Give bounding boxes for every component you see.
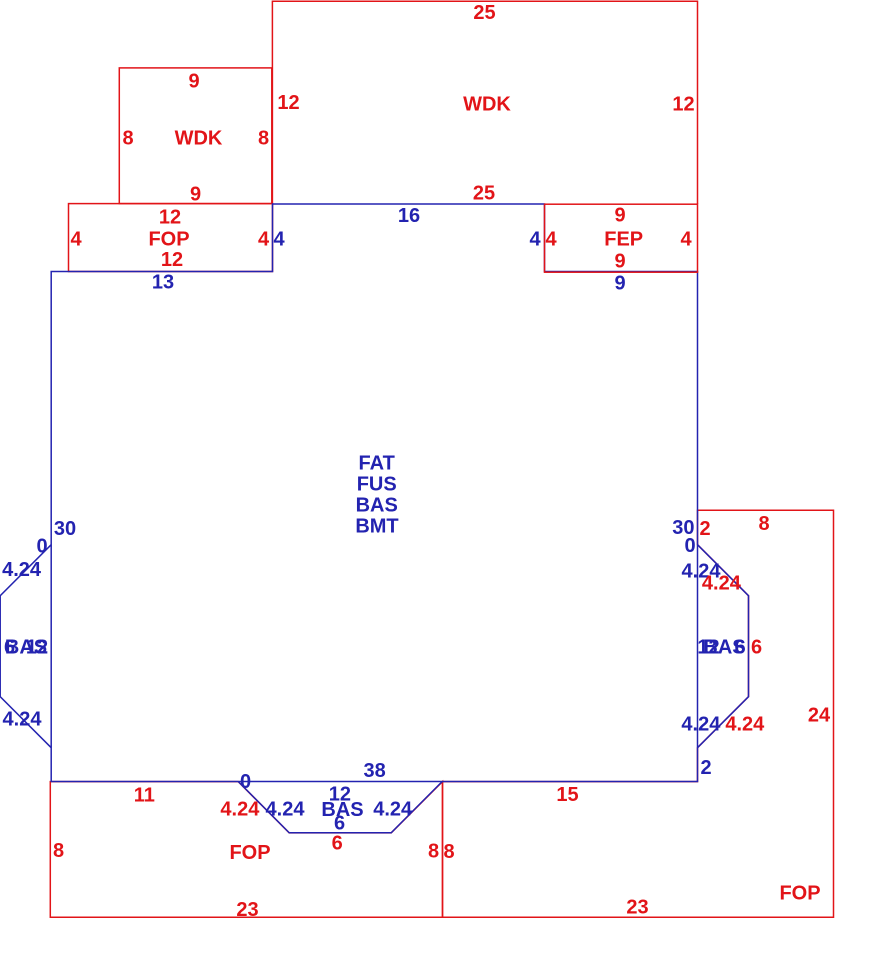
svg-text:6: 6: [734, 637, 745, 659]
svg-text:8: 8: [443, 841, 454, 863]
svg-text:2: 2: [700, 757, 711, 779]
svg-text:9: 9: [614, 251, 625, 273]
area FOP (upper-left open porch) outline: [69, 204, 273, 272]
svg-text:12: 12: [672, 94, 694, 116]
svg-text:12: 12: [26, 637, 48, 659]
svg-text:23: 23: [236, 899, 258, 921]
svg-text:FOP: FOP: [779, 883, 820, 905]
svg-text:4.24: 4.24: [681, 713, 721, 735]
svg-text:4.24: 4.24: [2, 559, 42, 581]
svg-text:FOP: FOP: [229, 842, 270, 864]
svg-text:6: 6: [751, 637, 762, 659]
svg-text:8: 8: [428, 841, 439, 863]
area WDK (small wood deck) outline: [119, 68, 271, 204]
svg-text:8: 8: [758, 513, 769, 535]
svg-text:8: 8: [258, 128, 269, 150]
svg-text:9: 9: [190, 184, 201, 206]
svg-text:6: 6: [332, 833, 343, 855]
svg-text:4: 4: [258, 229, 270, 251]
svg-text:0: 0: [36, 535, 47, 557]
right bay window outline: [698, 545, 749, 748]
svg-text:4: 4: [680, 229, 692, 251]
svg-text:FOP: FOP: [148, 229, 189, 251]
svg-text:4.24: 4.24: [702, 573, 742, 595]
svg-text:23: 23: [626, 897, 648, 919]
svg-text:FEP: FEP: [604, 229, 643, 251]
svg-text:38: 38: [363, 760, 385, 782]
area FEP (enclosed porch, drawn over blue) outline: [545, 204, 698, 272]
svg-text:12: 12: [159, 207, 181, 229]
svg-text:4.24: 4.24: [220, 798, 260, 820]
svg-text:16: 16: [398, 205, 420, 227]
svg-text:4.24: 4.24: [373, 798, 413, 820]
svg-text:6: 6: [334, 812, 345, 834]
svg-text:25: 25: [473, 183, 495, 205]
svg-text:WDK: WDK: [175, 128, 223, 150]
area FOP (bottom-left porch with bay notch) outline: [50, 782, 442, 918]
svg-text:0: 0: [684, 535, 695, 557]
area WDK (large wood deck, top) outline: [272, 1, 697, 204]
svg-text:4: 4: [70, 229, 82, 251]
svg-text:FAT: FAT: [359, 453, 395, 475]
svg-text:BMT: BMT: [355, 516, 398, 538]
svg-text:24: 24: [808, 705, 831, 727]
svg-text:0: 0: [240, 771, 251, 793]
svg-text:25: 25: [473, 2, 495, 24]
svg-text:15: 15: [556, 784, 578, 806]
svg-text:9: 9: [614, 205, 625, 227]
svg-text:4: 4: [273, 229, 285, 251]
svg-text:8: 8: [122, 128, 133, 150]
svg-text:4.24: 4.24: [725, 713, 765, 735]
svg-text:12: 12: [161, 249, 183, 271]
svg-text:13: 13: [152, 272, 174, 294]
svg-text:30: 30: [54, 518, 76, 540]
svg-text:2: 2: [699, 518, 710, 540]
svg-text:WDK: WDK: [463, 94, 511, 116]
svg-text:8: 8: [53, 840, 64, 862]
svg-text:9: 9: [188, 71, 199, 93]
area FOP (bottom-right L-shaped porch with bay notch) outline: [443, 510, 834, 917]
svg-text:BAS: BAS: [356, 495, 398, 517]
svg-text:12: 12: [277, 92, 299, 114]
svg-text:4.24: 4.24: [3, 709, 43, 731]
svg-text:4: 4: [545, 229, 557, 251]
bottom bay window outline: [238, 782, 442, 833]
svg-text:4: 4: [529, 229, 541, 251]
left bay window outline: [0, 545, 51, 748]
svg-text:4.24: 4.24: [266, 798, 306, 820]
main dwelling outline (blue): [51, 204, 697, 782]
svg-text:FUS: FUS: [357, 474, 397, 496]
svg-text:11: 11: [134, 784, 155, 806]
svg-text:9: 9: [614, 273, 625, 295]
